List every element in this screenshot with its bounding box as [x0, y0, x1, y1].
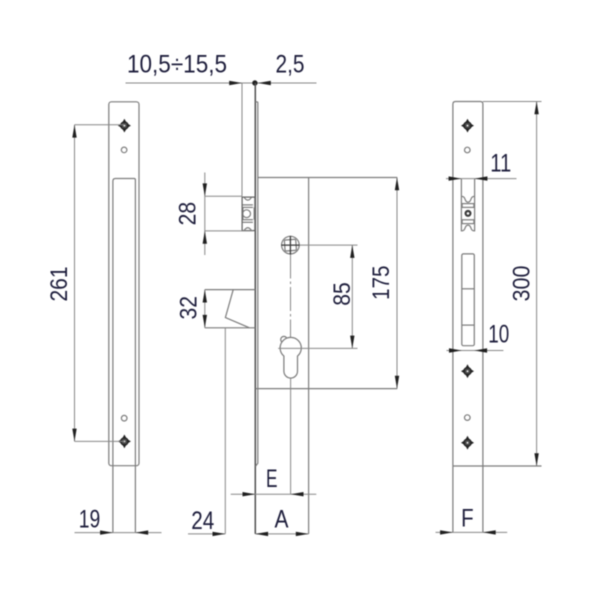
dimension A [255, 533, 308, 535]
svg-text:10: 10 [488, 320, 509, 348]
spindle hole [282, 236, 300, 254]
svg-text:24: 24 [191, 507, 214, 535]
dimension 32 [204, 290, 206, 328]
top dimension line [126, 82, 317, 84]
top extension for 300 [483, 101, 542, 103]
lock body right edge [308, 178, 310, 534]
svg-text:2,5: 2,5 [276, 51, 305, 79]
arrow for 10,5-15,5 [229, 81, 242, 85]
svg-text:19: 19 [79, 506, 101, 534]
roller front view (spool) [461, 196, 474, 231]
dimension 175 [396, 178, 398, 389]
dimension F [436, 531, 508, 533]
roller side view [242, 197, 255, 231]
hole top-left [121, 147, 127, 153]
dimension E [231, 493, 317, 495]
svg-text:175: 175 [368, 266, 395, 301]
svg-text:261: 261 [46, 267, 73, 302]
euro cylinder hole [280, 337, 301, 378]
screw top-right [461, 119, 474, 133]
roller pin [465, 210, 472, 217]
dimension 300 [536, 102, 538, 467]
faceplate back edge line [256, 102, 258, 466]
faceplate [453, 102, 483, 533]
cylinder hole bump [281, 336, 287, 342]
dimension 19 line [75, 532, 162, 534]
dimension dot [252, 80, 257, 85]
dimension 10 line [447, 350, 504, 352]
svg-text:32: 32 [176, 296, 203, 320]
hole top-right [465, 147, 471, 153]
plate section line + 300 bottom extension [453, 465, 542, 467]
dimension 11 line [446, 178, 517, 180]
screw bottom-left [118, 435, 131, 449]
faceplate top edge [255, 101, 257, 103]
screw mid-right [461, 364, 474, 378]
screw top-left [118, 119, 131, 133]
wide faceplate [109, 102, 139, 466]
svg-text:E: E [266, 465, 278, 493]
svg-text:F: F [461, 505, 474, 533]
narrow plate / slot [113, 179, 135, 533]
svg-text:11: 11 [490, 149, 511, 177]
arrow for 2,5 [258, 81, 271, 85]
svg-text:300: 300 [509, 266, 536, 302]
svg-text:28: 28 [175, 202, 202, 226]
case slot front view [462, 254, 475, 346]
hole bottom-left [121, 415, 127, 421]
vertical centerline [290, 255, 292, 379]
spindle centerline extension [300, 244, 358, 246]
screw bottom-right [461, 436, 474, 450]
lock body top edge [258, 177, 398, 179]
dimension 28 [205, 195, 242, 197]
cylinder centerline [278, 347, 357, 349]
cylinder extension to E [290, 378, 292, 494]
svg-text:A: A [275, 506, 289, 534]
lock body bottom edge [255, 388, 397, 390]
latch bolt [205, 289, 256, 291]
dimension 85 [351, 245, 353, 348]
faceplate front edge line [254, 83, 256, 534]
dimension 261 line [74, 125, 76, 442]
svg-text:10,5÷15,5: 10,5÷15,5 [127, 51, 227, 79]
roller channel walls [460, 179, 462, 232]
dimension 24 [188, 533, 225, 535]
svg-text:85: 85 [329, 282, 356, 306]
hole bottom-right [465, 415, 471, 421]
latch extension line [224, 328, 226, 534]
extension line roller front [241, 83, 243, 196]
dimension 261 extension lines [75, 124, 125, 126]
